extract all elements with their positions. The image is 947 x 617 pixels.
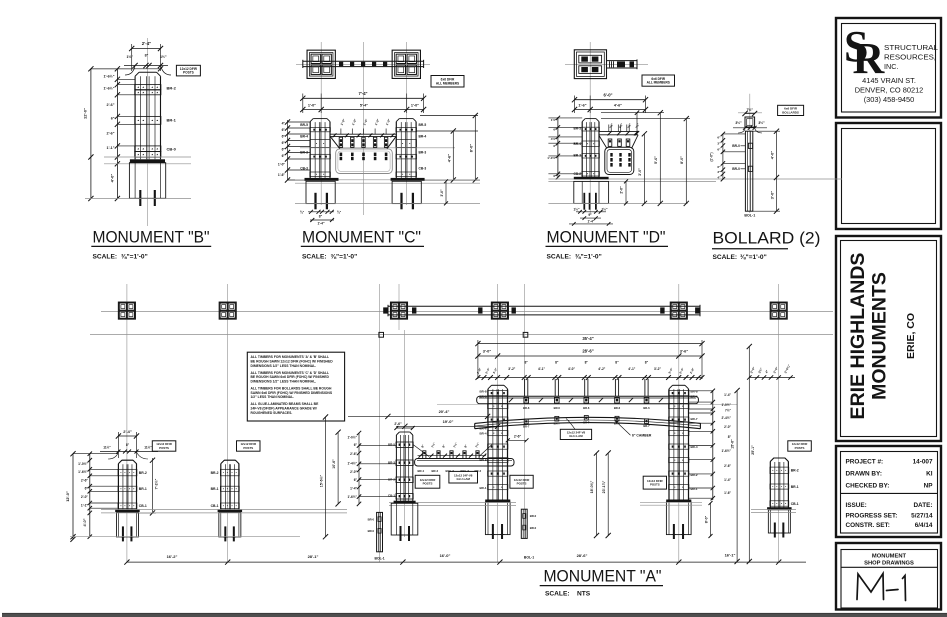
svg-text:23'-1¾": 23'-1¾" — [602, 480, 606, 493]
svg-text:8'-0": 8'-0" — [468, 144, 473, 153]
svg-text:POSTS: POSTS — [243, 446, 253, 450]
svg-text:POSTS: POSTS — [517, 482, 527, 486]
svg-text:2'-4½": 2'-4½" — [721, 416, 731, 420]
svg-text:3'-0": 3'-0" — [667, 367, 674, 375]
svg-text:16'-1": 16'-1" — [725, 553, 736, 558]
svg-text:INC.: INC. — [884, 62, 898, 71]
svg-text:1'-6½": 1'-6½" — [103, 75, 114, 79]
svg-text:15'-6": 15'-6" — [731, 439, 735, 449]
svg-text:8": 8" — [555, 361, 559, 365]
svg-text:2'-8": 2'-8" — [689, 367, 696, 375]
svg-text:BR-1: BR-1 — [211, 487, 219, 491]
svg-text:BR-1: BR-1 — [139, 487, 147, 491]
svg-text:BR-6: BR-6 — [614, 406, 621, 410]
svg-text:8": 8" — [728, 435, 732, 439]
svg-text:NP: NP — [924, 483, 934, 490]
svg-text:28'-1": 28'-1" — [308, 554, 319, 559]
svg-text:POSTS: POSTS — [159, 446, 169, 450]
svg-text:DIMENSIONS 1/2" LESS THAN NOMI: DIMENSIONS 1/2" LESS THAN NOMINAL. — [251, 364, 317, 368]
svg-text:STRUCTURAL: STRUCTURAL — [884, 43, 938, 52]
svg-text:2'-6": 2'-6" — [724, 464, 731, 468]
svg-text:3'-2": 3'-2" — [508, 367, 516, 371]
svg-text:3'-2": 3'-2" — [654, 367, 662, 371]
svg-text:2'-6": 2'-6" — [81, 479, 89, 483]
svg-text:3": 3" — [717, 141, 721, 145]
svg-text:BOL-2: BOL-2 — [446, 469, 455, 473]
svg-text:1½": 1½" — [602, 208, 608, 212]
svg-text:PROJECT #:: PROJECT #: — [846, 459, 884, 466]
svg-text:(1'-6"): (1'-6") — [710, 153, 714, 162]
svg-text:1'-0": 1'-0" — [385, 118, 392, 126]
svg-text:3½": 3½" — [735, 121, 742, 125]
svg-text:25'-1": 25'-1" — [751, 445, 755, 455]
svg-text:MONUMENT "D": MONUMENT "D" — [547, 229, 666, 247]
svg-text:ROUGHENED SURFACES.: ROUGHENED SURFACES. — [251, 411, 293, 415]
svg-text:18'-0⅜": 18'-0⅜" — [590, 480, 594, 493]
svg-text:7'-4": 7'-4" — [358, 91, 367, 96]
svg-text:20'-4": 20'-4" — [439, 409, 450, 414]
svg-text:4'-1": 4'-1" — [628, 367, 636, 371]
svg-text:3'-0": 3'-0" — [769, 191, 774, 200]
svg-text:1'-0½": 1'-0½" — [78, 462, 88, 466]
svg-text:15'-6½": 15'-6½" — [319, 474, 323, 487]
svg-text:DRAWN BY:: DRAWN BY: — [846, 471, 882, 478]
svg-text:1'-0": 1'-0" — [374, 118, 381, 126]
svg-text:6": 6" — [553, 128, 557, 132]
svg-text:2'-0": 2'-0" — [350, 470, 357, 474]
svg-text:7½": 7½" — [634, 122, 640, 129]
svg-text:MONUMENT: MONUMENT — [872, 554, 907, 560]
svg-text:2'-6": 2'-6" — [620, 186, 624, 194]
svg-text:1'-1": 1'-1" — [81, 504, 89, 508]
svg-text:BR-3: BR-3 — [574, 154, 582, 158]
svg-text:BR-6: BR-6 — [583, 406, 590, 410]
svg-text:8": 8" — [145, 54, 149, 58]
svg-text:2'-0": 2'-0" — [772, 366, 779, 374]
svg-text:6": 6" — [717, 165, 721, 169]
svg-text:11½": 11½" — [144, 446, 152, 450]
svg-text:BOL-1: BOL-1 — [744, 214, 755, 218]
svg-text:CONSTR. SET:: CONSTR. SET: — [846, 522, 890, 529]
svg-text:MONUMENT "B": MONUMENT "B" — [93, 229, 210, 247]
svg-text:3'-0": 3'-0" — [638, 168, 642, 176]
svg-text:1'-1": 1'-1" — [107, 146, 115, 150]
svg-text:8": 8" — [615, 361, 619, 365]
svg-text:7½": 7½" — [608, 122, 614, 129]
svg-text:7½": 7½" — [618, 122, 624, 129]
svg-text:BR-6: BR-6 — [643, 406, 650, 410]
svg-text:CB-3: CB-3 — [419, 167, 427, 171]
svg-text:4'-0": 4'-0" — [110, 174, 115, 183]
svg-text:BR-8: BR-8 — [691, 390, 698, 394]
svg-text:2'-6": 2'-6" — [514, 435, 522, 439]
svg-text:4½": 4½" — [551, 137, 557, 141]
svg-text:⅜"=1'-0": ⅜"=1'-0" — [331, 254, 358, 261]
svg-text:BR-2: BR-2 — [791, 469, 799, 473]
svg-text:5/27/14: 5/27/14 — [911, 513, 933, 520]
svg-text:1½": 1½" — [551, 118, 557, 122]
svg-text:2½": 2½" — [757, 367, 763, 374]
svg-text:8": 8" — [126, 443, 130, 447]
svg-text:1½": 1½" — [126, 55, 133, 59]
svg-text:10'-6": 10'-6" — [332, 459, 336, 469]
svg-text:POSTS: POSTS — [650, 482, 660, 486]
svg-text:1½": 1½" — [574, 208, 580, 212]
svg-text:BR-4: BR-4 — [418, 469, 425, 473]
svg-text:BR-6: BR-6 — [554, 406, 561, 410]
svg-text:MONUMENT "C": MONUMENT "C" — [302, 229, 421, 247]
svg-text:6": 6" — [553, 144, 557, 148]
svg-text:1'-4": 1'-4" — [317, 221, 325, 225]
svg-text:RESOURCES,: RESOURCES, — [884, 53, 936, 62]
svg-text:¾": ¾" — [300, 210, 305, 214]
svg-text:8'-0": 8'-0" — [680, 156, 684, 164]
svg-text:2'-4": 2'-4" — [678, 367, 685, 375]
svg-text:(303) 458-9450: (303) 458-9450 — [864, 95, 915, 104]
svg-text:2'-6": 2'-6" — [394, 422, 402, 426]
svg-text:1'-6½": 1'-6½" — [347, 495, 357, 499]
svg-text:ALL MEMBERS: ALL MEMBERS — [436, 81, 459, 85]
svg-text:1'-0½": 1'-0½" — [347, 436, 357, 440]
svg-text:4'-6": 4'-6" — [447, 154, 452, 163]
svg-text:2'-0": 2'-0" — [724, 425, 731, 429]
svg-text:3'-6": 3'-6" — [680, 348, 689, 353]
svg-text:BR-7: BR-7 — [554, 422, 561, 426]
svg-text:1'-6": 1'-6" — [578, 104, 586, 108]
svg-text:CB-0: CB-0 — [167, 146, 177, 151]
svg-text:6/4/14: 6/4/14 — [915, 522, 933, 529]
svg-text:2'-8": 2'-8" — [476, 367, 483, 375]
svg-text:1/2" LESS THAN NOMINAL.: 1/2" LESS THAN NOMINAL. — [251, 395, 295, 399]
svg-text:BR-5: BR-5 — [419, 123, 427, 127]
svg-text:SCALE:: SCALE: — [545, 591, 570, 598]
svg-text:1'-4": 1'-4" — [350, 487, 357, 491]
svg-text:6": 6" — [354, 443, 358, 447]
svg-text:1'-0": 1'-0" — [278, 163, 286, 167]
svg-text:BR-8: BR-8 — [479, 390, 486, 394]
svg-text:8": 8" — [524, 361, 528, 365]
svg-text:4'-0": 4'-0" — [83, 518, 87, 526]
svg-text:BR-1: BR-1 — [167, 117, 177, 122]
svg-text:6": 6" — [282, 135, 286, 139]
svg-text:DENVER, CO 80212: DENVER, CO 80212 — [855, 86, 924, 95]
svg-text:2'-0": 2'-0" — [81, 495, 89, 499]
svg-text:2'-4": 2'-4" — [123, 429, 132, 434]
svg-text:BR-3: BR-3 — [432, 469, 439, 473]
svg-text:5'-6": 5'-6" — [654, 156, 658, 164]
svg-text:12'-0": 12'-0" — [65, 491, 70, 502]
svg-text:1'-6½": 1'-6½" — [78, 470, 88, 474]
svg-text:4'-6": 4'-6" — [614, 104, 622, 108]
svg-text:BR-2: BR-2 — [167, 85, 177, 90]
svg-text:1'-0½": 1'-0½" — [721, 403, 731, 407]
svg-text:16'-2": 16'-2" — [167, 554, 178, 559]
svg-text:7½": 7½" — [452, 441, 458, 448]
svg-text:MONUMENT "A": MONUMENT "A" — [544, 568, 662, 586]
svg-text:BR-0: BR-0 — [368, 517, 375, 521]
svg-text:ISSUE:: ISSUE: — [846, 502, 867, 509]
svg-text:6": 6" — [282, 154, 286, 158]
svg-text:KI: KI — [926, 471, 933, 478]
svg-text:BOL-3: BOL-3 — [461, 469, 470, 473]
svg-text:BR-0: BR-0 — [368, 529, 375, 533]
svg-text:6": 6" — [85, 487, 89, 491]
svg-text:BR-5: BR-5 — [300, 123, 308, 127]
svg-text:BR-7: BR-7 — [523, 424, 530, 428]
svg-text:2'-6": 2'-6" — [107, 132, 115, 136]
svg-text:BR-6: BR-6 — [523, 406, 530, 410]
svg-text:POSTS: POSTS — [183, 71, 194, 75]
svg-text:4'-2": 4'-2" — [598, 367, 606, 371]
svg-text:1'-0": 1'-0" — [308, 103, 316, 107]
svg-text:6": 6" — [717, 136, 721, 140]
svg-text:⅜"=1'-0": ⅜"=1'-0" — [121, 254, 148, 261]
svg-text:28'-6": 28'-6" — [577, 553, 588, 558]
svg-text:6": 6" — [553, 174, 557, 178]
svg-text:BR-4: BR-4 — [300, 135, 308, 139]
svg-text:BR-3: BR-3 — [419, 151, 427, 155]
svg-text:3'-0": 3'-0" — [483, 348, 492, 353]
svg-text:4": 4" — [282, 122, 286, 126]
svg-text:3": 3" — [717, 170, 721, 174]
svg-text:BOL-1: BOL-1 — [524, 556, 534, 560]
svg-text:6": 6" — [111, 117, 115, 121]
svg-text:6" CAMBER: 6" CAMBER — [632, 434, 652, 438]
svg-text:1'-4½": 1'-4½" — [347, 462, 357, 466]
svg-text:9": 9" — [588, 213, 592, 217]
svg-text:1'-0": 1'-0" — [411, 103, 419, 107]
svg-text:BR-7: BR-7 — [691, 417, 698, 421]
svg-text:16'-0": 16'-0" — [440, 553, 451, 558]
svg-text:6": 6" — [354, 478, 358, 482]
svg-text:BR-2: BR-2 — [211, 471, 219, 475]
svg-text:1'-4": 1'-4" — [588, 219, 595, 223]
svg-text:BR-4: BR-4 — [419, 135, 427, 139]
svg-text:BOLLARDS: BOLLARDS — [782, 110, 799, 114]
svg-text:2'-6": 2'-6" — [350, 452, 357, 456]
svg-text:14-007: 14-007 — [913, 459, 933, 466]
svg-text:MONUMENTS: MONUMENTS — [869, 272, 891, 400]
svg-text:8": 8" — [441, 443, 446, 448]
svg-text:BR-0: BR-0 — [530, 526, 537, 530]
svg-text:8": 8" — [585, 361, 589, 365]
svg-text:¾": ¾" — [337, 210, 342, 214]
svg-text:28'-6": 28'-6" — [582, 348, 593, 353]
svg-text:4": 4" — [764, 369, 769, 374]
svg-text:6": 6" — [282, 148, 286, 152]
svg-text:BR-1: BR-1 — [791, 485, 799, 489]
svg-text:7'-2½": 7'-2½" — [154, 478, 158, 489]
svg-text:6'-0": 6'-0" — [603, 92, 612, 97]
svg-text:PROGRESS SET:: PROGRESS SET: — [846, 513, 898, 520]
svg-text:1'-6": 1'-6" — [278, 173, 286, 177]
svg-text:POSTS: POSTS — [795, 446, 805, 450]
svg-text:1'-4": 1'-4" — [724, 478, 731, 482]
svg-text:SCALE:: SCALE: — [93, 254, 118, 261]
svg-text:2'-0": 2'-0" — [749, 366, 756, 374]
svg-text:SHOP DRAWINGS: SHOP DRAWINGS — [864, 561, 914, 567]
svg-text:4'-0": 4'-0" — [568, 367, 576, 371]
svg-text:19'-0": 19'-0" — [443, 419, 454, 424]
svg-text:SCALE:: SCALE: — [713, 254, 738, 261]
svg-text:2'-4": 2'-4" — [142, 41, 151, 46]
svg-text:4'-1": 4'-1" — [538, 367, 546, 371]
svg-text:7½": 7½" — [626, 122, 632, 129]
svg-text:2'-4": 2'-4" — [484, 367, 491, 375]
svg-text:BR-0: BR-0 — [732, 144, 740, 148]
svg-text:⅜"=1'-0": ⅜"=1'-0" — [575, 254, 602, 261]
svg-text:8": 8" — [420, 443, 425, 448]
svg-text:6": 6" — [282, 128, 286, 132]
svg-text:7½": 7½" — [430, 441, 436, 448]
svg-text:8": 8" — [645, 361, 649, 365]
svg-text:GLU-LAM: GLU-LAM — [569, 434, 583, 438]
svg-text:1'-6": 1'-6" — [724, 491, 731, 495]
svg-text:ALL MEMBERS: ALL MEMBERS — [647, 81, 670, 85]
svg-text:CB-1: CB-1 — [791, 502, 799, 506]
svg-text:1'-0": 1'-0" — [351, 118, 358, 126]
svg-text:1½": 1½" — [160, 55, 167, 59]
svg-text:BOL-1: BOL-1 — [375, 557, 385, 561]
svg-text:SCALE:: SCALE: — [547, 254, 572, 261]
svg-text:8": 8" — [463, 443, 468, 448]
svg-text:3½": 3½" — [758, 121, 765, 125]
svg-text:7½": 7½" — [474, 441, 480, 448]
svg-text:DIMENSIONS 1/2" LESS THAN NOMI: DIMENSIONS 1/2" LESS THAN NOMINAL. — [251, 380, 317, 384]
svg-text:ERIE HIGHLANDS: ERIE HIGHLANDS — [847, 253, 869, 420]
svg-text:2'-0¾": 2'-0¾" — [783, 363, 791, 374]
svg-text:DATE:: DATE: — [913, 502, 932, 509]
svg-text:3'-0": 3'-0" — [440, 189, 444, 197]
svg-text:NTS: NTS — [577, 591, 591, 598]
svg-text:4'-0": 4'-0" — [769, 151, 774, 160]
svg-text:BR-3: BR-3 — [475, 469, 482, 473]
svg-text:CB-1: CB-1 — [139, 504, 147, 508]
svg-text:BR-6: BR-6 — [691, 394, 698, 398]
svg-text:6": 6" — [717, 147, 721, 151]
svg-text:1'-0½": 1'-0½" — [547, 156, 557, 160]
svg-text:BR-4: BR-4 — [574, 142, 582, 146]
svg-text:4": 4" — [717, 175, 721, 179]
svg-text:POSTS: POSTS — [423, 482, 433, 486]
svg-text:8'-0": 8'-0" — [704, 515, 708, 523]
svg-text:BR-0: BR-0 — [530, 514, 537, 518]
svg-text:⅜"=1'-0": ⅜"=1'-0" — [740, 254, 767, 261]
svg-text:CHECKED BY:: CHECKED BY: — [846, 483, 890, 490]
svg-text:7½": 7½" — [725, 409, 731, 413]
svg-text:35'-4": 35'-4" — [582, 336, 593, 341]
svg-text:12'-0": 12'-0" — [83, 108, 88, 119]
svg-text:1'-6½": 1'-6½" — [103, 87, 114, 91]
svg-text:BR-2: BR-2 — [139, 471, 147, 475]
svg-text:GLU-LAM: GLU-LAM — [457, 477, 471, 481]
svg-text:BR-4: BR-4 — [479, 431, 486, 435]
svg-text:BR-0: BR-0 — [732, 167, 740, 171]
svg-text:1'-0": 1'-0" — [340, 118, 347, 126]
svg-text:SCALE:: SCALE: — [302, 254, 327, 261]
svg-text:8": 8" — [319, 214, 323, 218]
svg-text:BR-6: BR-6 — [479, 394, 486, 398]
svg-text:BR-7: BR-7 — [583, 421, 590, 425]
svg-text:ERIE, CO: ERIE, CO — [905, 313, 917, 359]
svg-text:2'-6": 2'-6" — [107, 103, 115, 107]
svg-text:BR-1: BR-1 — [479, 486, 486, 490]
svg-text:4145 VRAIN ST.: 4145 VRAIN ST. — [862, 76, 916, 85]
svg-text:1'-4": 1'-4" — [724, 393, 731, 397]
svg-text:5'-4": 5'-4" — [360, 103, 368, 107]
svg-text:6": 6" — [282, 141, 286, 145]
svg-text:BOLLARD (2): BOLLARD (2) — [713, 229, 821, 248]
svg-text:BR-1: BR-1 — [691, 487, 698, 491]
svg-text:11½": 11½" — [103, 446, 111, 450]
svg-text:BR-7: BR-7 — [643, 424, 650, 428]
svg-text:CB-1: CB-1 — [211, 504, 219, 508]
